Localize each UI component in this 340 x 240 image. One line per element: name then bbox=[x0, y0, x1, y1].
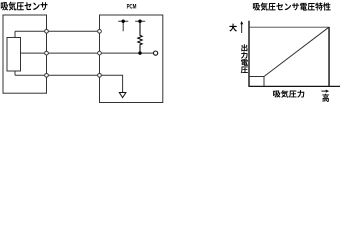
svg-text:PCM: PCM bbox=[127, 4, 137, 11]
